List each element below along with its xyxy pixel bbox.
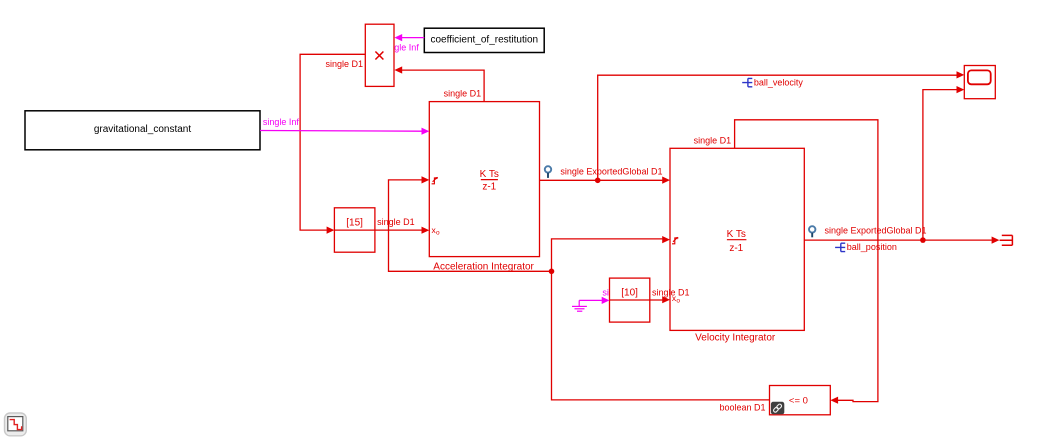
compare block <= 0: [770, 386, 831, 415]
wire: gravitational_constant to Acceleration Integrator (magenta): [260, 130, 422, 133]
svg-text:ball_velocity: ball_velocity: [754, 78, 804, 88]
svg-text:Velocity Integrator: Velocity Integrator: [695, 332, 776, 343]
Acceleration Integrator block: [429, 102, 539, 257]
product block U1 (multiply): [365, 24, 394, 86]
Velocity Integrator reset port glyph: [672, 237, 678, 244]
wire: through IC [15] to Acceleration Integrator x0: [334, 229, 421, 231]
test point badge (velocity signal): [545, 166, 551, 178]
wire: Velocity Integrator state port to compare block: [735, 120, 878, 402]
svg-text:z-1: z-1: [482, 181, 496, 192]
terminator block: [1000, 235, 1013, 245]
constant block gravitational_constant: [25, 111, 260, 150]
svg-text:single D1: single D1: [444, 89, 482, 99]
svg-text:z-1: z-1: [729, 243, 743, 254]
svg-text:gle Inf: gle Inf: [394, 43, 419, 53]
wire: product output to IC [15]: [300, 54, 365, 230]
IC block [15]: [334, 208, 375, 252]
wire: branch up to scope input 1 (ball_velocity): [598, 75, 957, 180]
svg-text:K Ts: K Ts: [480, 169, 499, 180]
svg-text:si: si: [602, 287, 609, 297]
wire: Acceleration Integrator output to Velocity Integrator input: [540, 179, 663, 181]
wire junction node: [549, 269, 555, 275]
svg-text:<= 0: <= 0: [789, 396, 808, 407]
Velocity Integrator block: [670, 148, 804, 330]
svg-text:single D1: single D1: [325, 59, 363, 69]
Acceleration Integrator reset port glyph: [432, 177, 438, 184]
wire junction node: [920, 237, 926, 243]
wire: Acceleration Integrator state port to product input 2: [402, 70, 484, 102]
wire junction node: [595, 178, 601, 184]
svg-text:o: o: [676, 297, 680, 304]
svg-text:boolean D1: boolean D1: [719, 403, 765, 413]
Velocity Integrator x0 port label: [672, 293, 681, 305]
logging badge and name ball_position: [835, 242, 897, 252]
wire: compare output to Velocity Integrator reset: [552, 239, 770, 400]
Scope block: [964, 66, 995, 99]
svg-text:single Inf: single Inf: [263, 117, 300, 127]
svg-text:gravitational_constant: gravitational_constant: [94, 124, 192, 135]
compare block library link badge: [771, 402, 784, 415]
wire: Velocity Integrator output to terminator: [804, 239, 991, 241]
svg-text:[15]: [15]: [346, 217, 363, 228]
svg-text:single D1: single D1: [377, 217, 415, 227]
svg-text:single ExportedGlobal D1: single ExportedGlobal D1: [825, 226, 927, 236]
svg-text:o: o: [436, 229, 440, 236]
wire: branch to Acceleration Integrator reset: [389, 180, 552, 271]
svg-text:coefficient_of_restitution: coefficient_of_restitution: [430, 35, 538, 46]
wire: branch up to scope input 2 (ball_position): [923, 90, 957, 241]
svg-text:[10]: [10]: [621, 287, 638, 298]
corner hidden-content button: [5, 413, 27, 436]
wire: coefficient_of_restitution to product (magenta): [402, 37, 424, 39]
test point badge (position signal): [809, 226, 815, 237]
wire: through IC [10] to Velocity Integrator x0: [610, 299, 663, 301]
ground block (magenta): [572, 300, 587, 311]
svg-text:single D1: single D1: [652, 287, 690, 297]
wire: ground to IC [10] (magenta): [579, 299, 602, 301]
Acceleration Integrator x0 port label: [432, 225, 441, 237]
svg-text:single ExportedGlobal D1: single ExportedGlobal D1: [560, 167, 662, 177]
svg-text:K Ts: K Ts: [727, 229, 746, 240]
svg-text:ball_position: ball_position: [847, 242, 897, 252]
constant block coefficient_of_restitution: [424, 28, 544, 52]
svg-text:single D1: single D1: [694, 136, 732, 146]
logging badge and name ball_velocity: [742, 78, 803, 88]
IC block [10]: [610, 278, 650, 322]
